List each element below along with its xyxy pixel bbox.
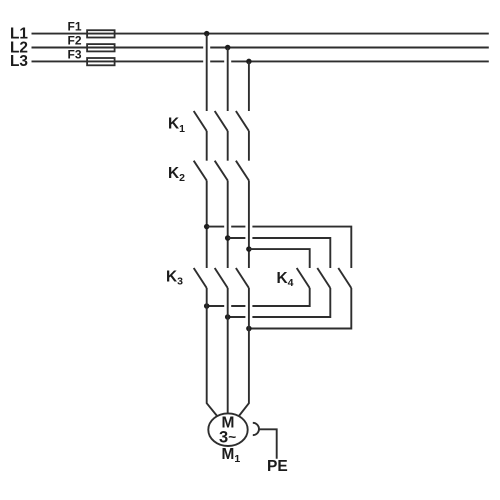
wire K1 to K2 pole 1 xyxy=(206,131,208,161)
wire K3 pole 2 to motor terminal V xyxy=(227,288,229,414)
node junction K4 pole3 to phase3 xyxy=(246,326,252,332)
contactor K2 pole 1 contact xyxy=(194,161,207,181)
svg-text:K3: K3 xyxy=(166,269,183,288)
wire PE xyxy=(258,429,276,458)
wire phase L2 xyxy=(32,47,489,49)
PE terminal arc xyxy=(253,423,259,435)
wire K2 pole 1 down to K3 pole 1 xyxy=(206,181,208,269)
svg-text:F2: F2 xyxy=(68,34,82,48)
contactor K1 pole 2 contact xyxy=(215,111,228,131)
wire K3 pole 1 to motor terminal U xyxy=(207,288,218,417)
wire K1 to K2 pole 3 xyxy=(248,131,250,161)
node junction branch to K4 phase 3 xyxy=(246,246,252,252)
wire K2 pole 3 down to K3 pole 3 xyxy=(248,181,250,269)
contactor K4 pole 2 contact xyxy=(317,268,330,288)
wire K3 pole 3 to motor terminal W xyxy=(239,288,249,417)
wire K1 to K2 pole 2 xyxy=(227,131,229,161)
contactor K1 pole 3 contact xyxy=(236,111,249,131)
contactor K3 pole 2 contact xyxy=(215,268,228,288)
contactor K2 pole 2 contact xyxy=(215,161,228,181)
wire drop from L2 to K1 pole 2 xyxy=(227,48,229,112)
wire phase L3 xyxy=(32,60,489,62)
wire branch L1 to K4 pole 3 top xyxy=(207,227,352,268)
svg-text:K4: K4 xyxy=(277,270,294,289)
contactor K3 pole 3 contact xyxy=(236,268,249,288)
node junction K4 pole2 to phase2 xyxy=(225,314,231,320)
contactor K1 pole 1 contact xyxy=(194,111,207,131)
svg-text:PE: PE xyxy=(267,458,288,475)
fuse F1 xyxy=(68,19,115,37)
wire K2 pole 2 down to K3 pole 2 xyxy=(227,181,229,269)
wire drop from L3 to K1 pole 3 xyxy=(248,61,250,111)
wire drop from L1 to K1 pole 1 xyxy=(206,34,208,111)
node junction branch to K4 phase 2 xyxy=(225,235,231,241)
wire K4 pole 1 bottom to node xyxy=(207,288,310,306)
wire branch L3 to K4 pole 1 top xyxy=(249,249,310,268)
svg-text:K2: K2 xyxy=(168,165,185,184)
wire K4 pole 3 bottom to node xyxy=(249,288,351,329)
svg-text:L3: L3 xyxy=(10,53,28,70)
svg-text:M1: M1 xyxy=(222,446,241,465)
svg-text:3~: 3~ xyxy=(219,428,236,446)
fuse F3 xyxy=(68,48,115,66)
svg-text:K1: K1 xyxy=(168,116,185,135)
node junction K4 pole1 to phase1 xyxy=(204,303,210,309)
motor M1 circle xyxy=(208,413,247,446)
node junction L1 tap xyxy=(204,31,210,37)
svg-text:F1: F1 xyxy=(68,19,82,33)
fuse F2 xyxy=(68,34,115,52)
contactor K2 pole 3 contact xyxy=(236,161,249,181)
node junction branch to K4 phase 1 xyxy=(204,224,210,230)
contactor K4 pole 3 contact xyxy=(338,268,351,288)
wire phase L1 xyxy=(32,33,489,35)
wire branch L2 to K4 pole 2 top xyxy=(228,238,331,268)
svg-text:F3: F3 xyxy=(68,48,82,62)
node junction L2 tap xyxy=(225,45,231,51)
contactor K4 pole 1 contact xyxy=(297,268,310,288)
contactor K3 pole 1 contact xyxy=(194,268,207,288)
node junction L3 tap xyxy=(246,59,252,65)
wire K4 pole 2 bottom to node xyxy=(228,288,331,317)
